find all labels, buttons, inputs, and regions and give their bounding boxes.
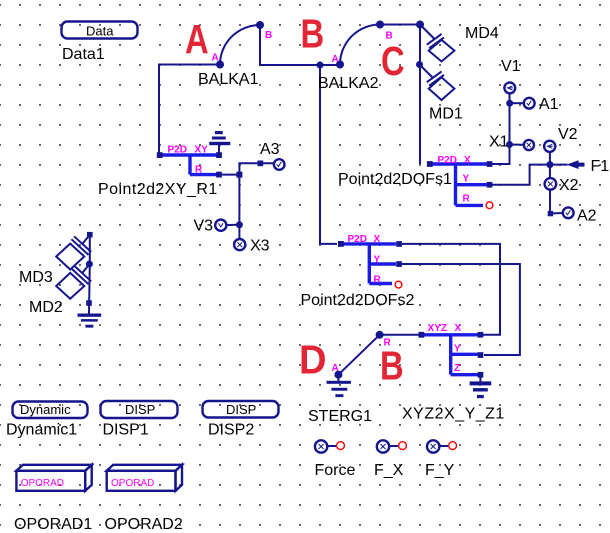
open terminal R (red) xyxy=(486,202,493,209)
terminal A3 xyxy=(274,159,285,170)
mass-damper MD1 xyxy=(420,65,455,101)
terminal X2 xyxy=(545,178,557,190)
junction square Y pin xyxy=(487,182,493,188)
ground (flipped) at XY pin xyxy=(209,131,230,155)
svg-text:B: B xyxy=(386,31,393,42)
svg-text:Z: Z xyxy=(454,363,460,374)
block Dynamic1 xyxy=(13,402,88,419)
terminal F_Y xyxy=(427,440,457,452)
node A of BALKA1 xyxy=(216,61,224,69)
junction MD2 xyxy=(86,261,93,268)
component Point2d2XY_R1 body xyxy=(160,155,219,175)
svg-text:X: X xyxy=(374,234,381,245)
svg-text:A: A xyxy=(332,54,339,65)
pin square P2D of Point2d2XY_R1 xyxy=(157,152,163,158)
pin square XY xyxy=(216,152,222,158)
svg-text:OPORAD1: OPORAD1 xyxy=(14,516,92,533)
terminal A2 xyxy=(563,207,574,218)
wire X2 to A2 xyxy=(550,190,563,214)
svg-text:V2: V2 xyxy=(558,126,578,143)
terminal A1 xyxy=(524,98,535,109)
svg-text:OPORAD2: OPORAD2 xyxy=(105,516,183,533)
svg-text:XYZ2X_Y_Z1: XYZ2X_Y_Z1 xyxy=(402,406,505,423)
svg-text:X2: X2 xyxy=(559,177,579,194)
wire Y net of DOFs2 to XYZ block xyxy=(402,264,520,355)
junction square Z pin of XYZ xyxy=(478,372,484,378)
pin square on ground stem xyxy=(86,300,92,306)
terminal F_X xyxy=(377,440,407,452)
pin square P2D of Point2d2DOFs2 xyxy=(338,241,344,247)
svg-text:Dynamic1: Dynamic1 xyxy=(6,422,77,439)
beam BALKA2 arc xyxy=(340,25,380,65)
mass-damper MD2 xyxy=(56,264,91,299)
wire BALKA2 B to corner xyxy=(380,25,420,165)
svg-text:Point2d2XY_R1: Point2d2XY_R1 xyxy=(98,181,218,198)
component XYZ2X_Y_Z1 body xyxy=(424,335,478,375)
svg-text:MD2: MD2 xyxy=(29,299,63,316)
svg-text:P2D: P2D xyxy=(348,234,367,245)
junction MD1 xyxy=(416,61,423,68)
svg-text:MD4: MD4 xyxy=(465,25,499,42)
svg-text:B: B xyxy=(265,30,272,41)
junction square X pin xyxy=(396,241,402,247)
svg-text:DISP1: DISP1 xyxy=(103,422,149,439)
svg-text:Y: Y xyxy=(463,173,470,184)
svg-text:Data: Data xyxy=(86,24,114,39)
svg-text:BALKA2: BALKA2 xyxy=(318,75,379,92)
terminal Force xyxy=(315,440,345,452)
svg-text:P2D: P2D xyxy=(438,155,457,166)
junction square X pin of XYZ xyxy=(478,332,484,338)
open terminal R (red) xyxy=(395,281,402,288)
wire R pin to junction xyxy=(222,174,239,176)
svg-text:DISP: DISP xyxy=(125,402,155,417)
pin square R xyxy=(216,172,222,178)
svg-text:DISP: DISP xyxy=(226,402,256,417)
junction F1 row xyxy=(546,161,553,168)
block Data1 xyxy=(62,22,138,39)
svg-text:R: R xyxy=(195,165,203,176)
terminal V2 xyxy=(544,141,555,152)
svg-text:Force: Force xyxy=(315,462,356,479)
svg-text:V1: V1 xyxy=(501,58,521,75)
node B of BALKA2 xyxy=(376,21,384,29)
wire to V3 xyxy=(227,224,239,226)
svg-text:Point2d2DOFs2: Point2d2DOFs2 xyxy=(301,292,415,309)
beam BALKA1 arc xyxy=(220,25,260,65)
wire X net up to V1 xyxy=(492,93,510,164)
svg-text:R: R xyxy=(374,275,382,286)
junction at node to Point2d2DOFs2 xyxy=(317,62,324,69)
pin square XYZ xyxy=(419,332,425,338)
junction square Y pin of XYZ xyxy=(478,352,484,358)
wire to X1 xyxy=(510,144,524,146)
svg-text:A2: A2 xyxy=(577,208,597,225)
wire STERG1 R to XYZ block xyxy=(380,334,421,336)
wire down to V3/X3 xyxy=(238,175,240,239)
block DISP2 xyxy=(203,401,279,418)
junction at V3 row xyxy=(236,221,243,228)
svg-text:A: A xyxy=(185,15,209,61)
ground XYZ2X_Y_Z1 xyxy=(470,375,492,398)
terminal V3 xyxy=(215,220,226,231)
svg-text:R: R xyxy=(384,338,392,349)
wire V2 stem xyxy=(549,152,551,165)
wire long vertical to Point2d2DOFs2 xyxy=(320,65,337,244)
component Point2d2DOFs1 body xyxy=(429,164,487,205)
junction A1 row xyxy=(506,100,513,107)
svg-text:B: B xyxy=(380,342,404,388)
block OPORAD1 xyxy=(16,465,91,491)
corner square A2 xyxy=(548,211,553,216)
wire from BALKA1 A to Point2d2XY_R1 xyxy=(159,65,220,156)
terminal V1 xyxy=(504,83,515,94)
component Point2d2DOFs2 body xyxy=(341,244,396,284)
svg-text:MD1: MD1 xyxy=(429,106,463,123)
junction square Y pin xyxy=(396,261,402,267)
svg-text:OPORAD: OPORAD xyxy=(111,478,154,489)
terminal X3 xyxy=(234,239,245,250)
svg-text:STERG1: STERG1 xyxy=(308,408,372,425)
svg-text:F_Y: F_Y xyxy=(425,462,455,479)
svg-text:X: X xyxy=(455,323,462,334)
block DISP1 xyxy=(101,401,178,418)
svg-text:OPORAD: OPORAD xyxy=(21,478,64,489)
svg-text:XYZ: XYZ xyxy=(428,323,447,334)
svg-text:C: C xyxy=(381,37,405,83)
svg-text:Point2d2DOFs1: Point2d2DOFs1 xyxy=(338,171,452,188)
wire MD3/MD2 vertical xyxy=(88,235,91,314)
svg-text:R: R xyxy=(463,194,471,205)
svg-text:DISP2: DISP2 xyxy=(208,422,254,439)
rod STERG1 xyxy=(334,331,383,379)
svg-text:D: D xyxy=(299,337,327,383)
wire X net of DOFs2 to XYZ block xyxy=(402,244,500,335)
junction square X pin xyxy=(487,161,493,167)
mass-damper MD4 xyxy=(420,25,454,62)
svg-text:Y: Y xyxy=(454,344,461,355)
svg-text:F1: F1 xyxy=(591,158,610,175)
pin square on A3 row xyxy=(258,161,264,167)
svg-text:A: A xyxy=(332,363,339,374)
svg-text:V3: V3 xyxy=(194,218,214,235)
ground STERG1 xyxy=(327,375,351,397)
svg-text:X: X xyxy=(464,155,471,166)
wire from BALKA1 B down xyxy=(260,25,340,65)
svg-text:Data1: Data1 xyxy=(62,46,105,63)
svg-text:XY: XY xyxy=(195,144,209,155)
svg-text:MD3: MD3 xyxy=(19,269,53,286)
pin square P2D of Point2d2DOFs1 xyxy=(427,161,433,167)
svg-text:Y: Y xyxy=(374,255,381,266)
wire to A1 xyxy=(510,102,524,104)
svg-text:A1: A1 xyxy=(539,96,559,113)
svg-text:X1: X1 xyxy=(489,133,509,150)
svg-text:X3: X3 xyxy=(250,238,270,255)
node B of BALKA1 xyxy=(256,21,264,29)
svg-text:P2D: P2D xyxy=(168,144,187,155)
svg-text:B: B xyxy=(301,10,325,56)
svg-text:F_X: F_X xyxy=(374,462,404,479)
block OPORAD2 xyxy=(107,465,182,491)
mass-damper MD3 xyxy=(56,235,91,270)
junction on R net xyxy=(236,172,242,178)
node A of BALKA2 xyxy=(336,61,344,69)
ground MD2 xyxy=(78,314,102,328)
junction at corner MD4 xyxy=(416,21,424,29)
svg-text:A: A xyxy=(212,53,219,64)
wire down to X2 xyxy=(549,165,551,179)
wire to A3 xyxy=(239,163,273,174)
svg-text:Dynamic: Dynamic xyxy=(20,402,71,417)
svg-text:A3: A3 xyxy=(260,141,280,158)
junction X1 row xyxy=(506,141,513,148)
terminal stub MD3 top square xyxy=(87,232,93,238)
arrow F1 xyxy=(567,160,585,169)
terminal X1 xyxy=(524,140,534,150)
wire Y net to F1 row xyxy=(492,165,568,185)
svg-text:BALKA1: BALKA1 xyxy=(198,71,259,88)
